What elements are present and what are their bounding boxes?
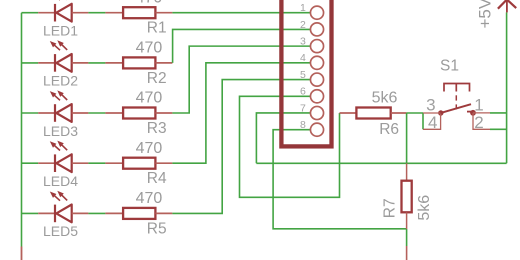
pin 1 circle [310,6,323,19]
svg-text:LED4: LED4 [43,173,78,189]
resistor R6 5k6 [340,108,407,119]
svg-text:470: 470 [136,190,163,207]
switch S1 lever [441,104,471,113]
resistor R5 470 [105,208,172,219]
wire bus to LED1 [22,12,39,14]
switch pin 2 lead [473,113,490,129]
LED LED2 [38,40,88,72]
wire bus to LED2 [22,62,39,64]
switch pin 3 lead [423,112,440,114]
resistor R7 5k6 [402,163,412,229]
wire LED4 to R4 [88,162,105,164]
svg-text:470: 470 [136,90,163,107]
svg-text:LED5: LED5 [43,223,78,239]
pin 7 circle [310,106,323,119]
wire bottom lead stub (cropped component) [406,246,408,260]
wire LED2 to R2 [88,62,105,64]
wire R7 bottom [406,229,408,246]
wire bus to LED5 [22,212,39,214]
svg-text:2: 2 [300,19,306,31]
wire switch pin2 to +5V [490,128,507,130]
svg-text:4: 4 [300,52,306,64]
switch pin 1 lead [473,112,490,114]
wire LED3 to R3 [88,112,105,114]
resistor R3 470 [105,108,172,119]
wire R5 to pin 5 [172,80,310,214]
wire pin 7 down to +5V rail [256,113,310,163]
connector box [281,0,331,146]
pin 5 circle [310,73,323,86]
wire R6 right to switch [407,112,423,114]
pin 2 circle [310,23,323,36]
svg-text:R6: R6 [379,121,399,138]
svg-text:R2: R2 [147,70,167,87]
wire +5V rail [256,162,506,164]
wire bottom-left lead stub (cropped component) [21,247,23,260]
wire +5V vertical [506,12,508,163]
wire switch pin4 drop [422,113,424,129]
svg-text:3: 3 [300,36,306,48]
svg-text:1: 1 [300,2,306,14]
pin 8 circle [310,123,323,136]
resistor R4 470 [105,158,172,169]
wire bus to LED4 [22,162,39,164]
wire LED1 to R1 [88,12,105,14]
svg-text:5: 5 [300,69,306,81]
wire LED5 to R5 [88,212,105,214]
svg-text:470: 470 [136,140,163,157]
svg-text:1: 1 [474,96,483,115]
svg-text:5k6: 5k6 [372,89,398,106]
svg-text:2: 2 [474,113,483,132]
LED LED4 [38,141,88,173]
LED LED5 [38,191,88,223]
svg-text:6: 6 [300,86,306,98]
switch pin 4 lead [423,114,441,130]
LED LED3 [38,90,88,122]
wire pin 8 to R7 bottom [273,130,407,229]
svg-text:5k6: 5k6 [416,195,433,221]
LED LED1 [38,0,88,22]
switch S1 contact dots [438,110,443,115]
svg-text:LED3: LED3 [43,123,78,139]
svg-text:R4: R4 [147,170,167,187]
wire bus to LED3 [22,112,39,114]
pin 4 circle [310,56,323,69]
wire switch pin1 to +5V [490,112,507,114]
svg-text:LED1: LED1 [43,23,78,39]
svg-text:4: 4 [428,113,437,132]
resistor R1 470 [105,7,172,18]
svg-text:3: 3 [426,96,435,115]
svg-text:+5V: +5V [476,0,495,29]
wire R6 right down to rail [406,113,408,163]
wire pin 6 to R6 left [240,96,340,197]
wire R3 to pin 3 [172,46,310,113]
svg-text:R5: R5 [147,220,167,237]
wire R2 to pin 2 [173,29,311,62]
wire left anode bus [21,13,23,247]
pin 3 circle [310,40,323,53]
svg-text:R7: R7 [382,198,399,218]
svg-text:LED2: LED2 [43,73,78,89]
svg-text:R1: R1 [147,20,167,37]
svg-text:470: 470 [136,40,163,57]
wire R1 to pin 1 [172,12,310,14]
resistor R2 470 [105,57,172,68]
supply +5V symbol [498,0,516,12]
svg-text:S1: S1 [440,57,459,74]
wire R4 to pin 4 [172,63,310,163]
switch S1 actuator [444,84,470,92]
svg-text:470: 470 [136,0,163,6]
svg-text:7: 7 [300,102,306,114]
pin 6 circle [310,90,323,103]
svg-text:8: 8 [300,119,306,131]
svg-text:R3: R3 [147,120,167,137]
